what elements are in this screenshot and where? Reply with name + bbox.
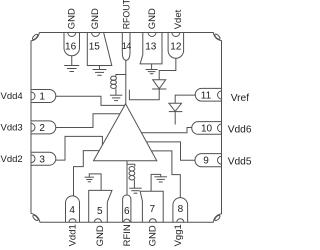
diode D1 — [152, 80, 166, 89]
pin 3 pad — [31, 152, 56, 165]
svg-text:GND: GND — [147, 8, 158, 29]
svg-text:Vdet: Vdet — [173, 9, 184, 29]
svg-text:4: 4 — [69, 205, 75, 216]
ground under pin 16 — [64, 56, 79, 72]
svg-text:GND: GND — [95, 225, 106, 246]
RF output trace (pad 14 to amplifier) — [125, 60, 127, 104]
ground under pin 15 — [93, 66, 107, 76]
svg-text:Vref: Vref — [231, 93, 249, 104]
wire pin 11 to diode D2 — [175, 95, 196, 103]
amplifier A1 — [94, 104, 157, 161]
wire amplifier to pin 9 — [146, 142, 195, 160]
svg-text:Vdd1: Vdd1 — [68, 224, 79, 246]
wire amplifier to pin 10 — [141, 128, 191, 133]
pin 12 pad — [168, 33, 184, 59]
corner indicator top-left — [32, 33, 39, 40]
svg-text:RFIN: RFIN — [122, 224, 133, 246]
pin 6 pad — [123, 195, 131, 222]
svg-text:7: 7 — [150, 204, 156, 215]
ground under L2 — [129, 188, 141, 193]
corner indicator top-right — [214, 33, 221, 40]
inductor L2 (input shunt) — [127, 164, 135, 188]
svg-text:2: 2 — [39, 123, 45, 134]
wire ground branch over pin 5 — [89, 174, 101, 191]
svg-text:8: 8 — [178, 204, 184, 215]
wire amplifier to pin 8 (Vgg) — [151, 151, 180, 198]
svg-text:Vdd2: Vdd2 — [1, 154, 23, 165]
ground under pin 13 — [146, 64, 158, 74]
svg-text:GND: GND — [148, 225, 159, 246]
pin 15 pad — [87, 33, 112, 66]
ground above pin 7 — [151, 174, 167, 191]
corner indicator bottom-left — [32, 214, 39, 221]
RF input trace (amplifier to pin 6) — [126, 161, 128, 196]
pin 8 pad — [173, 198, 188, 223]
pin 1 pad — [31, 90, 56, 103]
svg-text:11: 11 — [201, 90, 212, 101]
pin 7 pad — [140, 191, 163, 222]
svg-text:12: 12 — [170, 42, 182, 53]
svg-text:GND: GND — [90, 8, 101, 29]
pin 10 pad — [192, 122, 222, 135]
svg-text:Vdd6: Vdd6 — [228, 124, 251, 135]
svg-text:Vdd3: Vdd3 — [1, 122, 23, 133]
pin 4 pad — [66, 196, 80, 222]
pin 11 pad — [195, 88, 221, 101]
wire D1 cathode to coupler stub — [129, 89, 159, 100]
diode D2 — [169, 103, 183, 111]
svg-text:1: 1 — [39, 92, 45, 103]
pin 14 pad — [122, 33, 132, 61]
svg-text:Vdd4: Vdd4 — [1, 91, 23, 102]
wire pin 1 to amplifier — [56, 96, 125, 105]
pin 16 pad — [64, 33, 80, 56]
corner indicator bottom-right — [214, 215, 221, 222]
svg-text:13: 13 — [145, 42, 157, 53]
svg-text:RFOUT: RFOUT — [121, 0, 131, 29]
package outline — [31, 33, 222, 223]
wire pin 2 to amplifier — [56, 114, 120, 128]
wire pin 12 to diode D1 — [159, 58, 176, 80]
svg-text:Vgg1: Vgg1 — [173, 224, 184, 246]
svg-text:15: 15 — [89, 42, 101, 53]
wire amplifier to pin 4 — [74, 151, 100, 197]
inductor L1 (output shunt) — [111, 75, 126, 95]
ground under L1 — [110, 95, 122, 100]
svg-text:6: 6 — [124, 206, 130, 217]
ground above pin 5 — [85, 177, 94, 182]
stem below diode D2 — [174, 112, 176, 125]
svg-text:Vdd5: Vdd5 — [228, 157, 251, 168]
pin 5 pad — [89, 190, 112, 222]
svg-text:10: 10 — [201, 124, 213, 135]
svg-text:3: 3 — [39, 154, 45, 165]
pin 13 pad — [140, 33, 162, 64]
svg-text:9: 9 — [203, 156, 209, 167]
pin 2 pad — [31, 121, 56, 134]
svg-text:16: 16 — [65, 42, 77, 53]
svg-text:GND: GND — [66, 8, 77, 29]
wire pin 3 to amplifier — [56, 136, 103, 160]
svg-text:5: 5 — [97, 206, 103, 217]
svg-text:14: 14 — [122, 41, 132, 51]
pin 9 pad — [195, 154, 222, 167]
